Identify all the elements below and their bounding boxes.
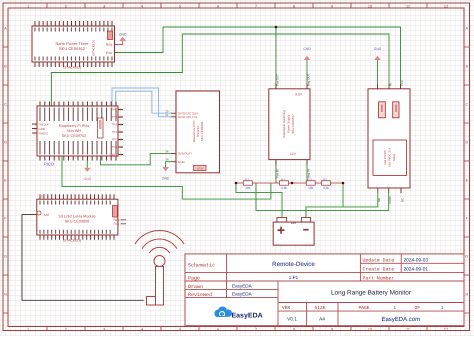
- svg-text:(STACKED): (STACKED): [63, 239, 81, 243]
- svg-text:8: 8: [293, 4, 295, 8]
- svg-text:D: D: [465, 140, 468, 144]
- svg-text:Remote-Device: Remote-Device: [272, 261, 315, 268]
- svg-text:Page: Page: [188, 275, 200, 281]
- svg-text:1RB 5VDC SL4: 1RB 5VDC SL4: [388, 147, 392, 167]
- svg-text:SX1262 LoRa Module: SX1262 LoRa Module: [58, 215, 95, 219]
- svg-text:V0.1: V0.1: [287, 317, 297, 323]
- svg-text:C: C: [465, 102, 468, 106]
- svg-text:Pos: Pos: [106, 51, 112, 55]
- svg-text:EasyEDA.com: EasyEDA.com: [381, 316, 420, 323]
- svg-text:Schematic: Schematic: [188, 263, 215, 269]
- svg-text:SIZE: SIZE: [314, 305, 325, 311]
- svg-text:10: 10: [368, 327, 372, 331]
- svg-text:36: 36: [165, 149, 169, 153]
- svg-text:OF: OF: [415, 305, 421, 311]
- svg-text:7: 7: [255, 327, 257, 331]
- svg-text:U3: U3: [40, 195, 45, 199]
- svg-text:Long Range Battery Monitor: Long Range Battery Monitor: [331, 290, 412, 297]
- svg-text:GP21 I2C TCL: GP21 I2C TCL: [178, 115, 198, 119]
- svg-text:3.3k: 3.3k: [323, 186, 329, 190]
- svg-text:Neg OUT: Neg OUT: [306, 74, 310, 86]
- svg-text:R?: R?: [281, 178, 285, 182]
- svg-text:2: 2: [65, 4, 67, 8]
- svg-text:TP5: TP5: [112, 138, 118, 142]
- svg-text:EasyEDA: EasyEDA: [232, 313, 263, 320]
- svg-text:11: 11: [406, 4, 410, 8]
- svg-text:7: 7: [255, 4, 257, 8]
- svg-text:3: 3: [103, 327, 105, 331]
- svg-text:SKU CE09702: SKU CE09702: [62, 134, 87, 138]
- svg-text:SWCLK: SWCLK: [39, 122, 49, 126]
- svg-text:10A 30VDC: 10A 30VDC: [383, 150, 387, 165]
- svg-text:PAGE: PAGE: [358, 305, 369, 311]
- svg-text:Pos IN: Pos IN: [275, 169, 279, 178]
- svg-text:GND: GND: [178, 160, 186, 164]
- svg-text:(STACKED): (STACKED): [63, 66, 81, 70]
- svg-text:EasyEDA: EasyEDA: [232, 284, 253, 289]
- svg-text:3V5(OUT): 3V5(OUT): [178, 152, 192, 156]
- svg-text:G: G: [4, 254, 7, 258]
- svg-text:Neg IN: Neg IN: [306, 169, 310, 178]
- svg-text:21: 21: [165, 113, 169, 117]
- svg-text:SKU CE06517: SKU CE06517: [291, 114, 295, 134]
- svg-text:TP1: TP1: [112, 108, 118, 112]
- svg-text:3: 3: [103, 4, 105, 8]
- svg-text:(STACKED): (STACKED): [92, 40, 96, 56]
- svg-text:H: H: [465, 292, 468, 296]
- svg-text:12V: 12V: [291, 221, 296, 225]
- svg-text:SKU CE06462: SKU CE06462: [59, 46, 86, 51]
- svg-text:SKU CE09808: SKU CE09808: [65, 220, 90, 224]
- svg-text:11: 11: [406, 327, 410, 331]
- svg-text:3.3V: 3.3V: [295, 92, 303, 96]
- svg-text:Power Supply: Power Supply: [287, 114, 291, 133]
- svg-text:GND: GND: [374, 47, 382, 51]
- svg-text:12: 12: [444, 327, 448, 331]
- svg-text:Part Number: Part Number: [363, 275, 395, 281]
- svg-text:GND: GND: [303, 47, 311, 51]
- svg-text:9: 9: [331, 4, 333, 8]
- svg-text:R?: R?: [323, 178, 327, 182]
- svg-text:3.3k: 3.3k: [281, 186, 287, 190]
- svg-text:38: 38: [165, 158, 169, 162]
- svg-text:5: 5: [179, 4, 181, 8]
- svg-text:1: 1: [27, 4, 29, 8]
- svg-text:10k: 10k: [245, 186, 251, 190]
- svg-text:Create Date: Create Date: [363, 267, 395, 273]
- svg-text:GND: GND: [119, 33, 127, 37]
- svg-text:H: H: [4, 292, 7, 296]
- svg-text:9: 9: [331, 327, 333, 331]
- svg-text:R?: R?: [245, 178, 249, 182]
- svg-text:VCC: VCC: [400, 80, 404, 86]
- svg-text:1: 1: [393, 305, 396, 311]
- svg-text:1:P1: 1:P1: [289, 275, 299, 280]
- svg-text:Pos OUT: Pos OUT: [275, 74, 279, 86]
- svg-text:TP2: TP2: [112, 115, 118, 119]
- svg-text:VER: VER: [282, 305, 291, 311]
- svg-text:10: 10: [368, 4, 372, 8]
- svg-text:TP6: TP6: [112, 145, 118, 149]
- svg-text:G: G: [465, 254, 468, 258]
- svg-text:2: 2: [65, 327, 67, 331]
- svg-text:4: 4: [141, 327, 143, 331]
- svg-text:TP3: TP3: [112, 123, 118, 127]
- svg-text:C: C: [4, 102, 7, 106]
- svg-text:Adjustable Switching: Adjustable Switching: [282, 110, 286, 138]
- svg-text:Neg: Neg: [106, 43, 112, 47]
- svg-text:SKU CE09508: SKU CE09508: [200, 121, 204, 141]
- svg-text:ANT: ANT: [44, 213, 50, 217]
- svg-text:2024-09-03: 2024-09-03: [404, 257, 429, 263]
- svg-text:USB: USB: [197, 167, 203, 171]
- svg-text:10k: 10k: [308, 186, 314, 190]
- svg-text:6: 6: [217, 4, 219, 8]
- svg-text:Reviewed: Reviewed: [188, 292, 212, 298]
- svg-text:IN: IN: [388, 83, 392, 86]
- svg-text:GND: GND: [162, 177, 170, 181]
- svg-text:Non WH: Non WH: [67, 129, 82, 133]
- svg-text:PICO: PICO: [44, 162, 55, 167]
- svg-text:GND: GND: [39, 127, 45, 131]
- svg-text:Relay: Relay: [392, 153, 396, 161]
- svg-text:8: 8: [293, 327, 295, 331]
- svg-text:SWDIO: SWDIO: [39, 131, 50, 135]
- svg-text:D: D: [4, 140, 7, 144]
- svg-text:Raspberry Pi Pico: Raspberry Pi Pico: [59, 124, 89, 128]
- svg-text:Pos: Pos: [114, 222, 120, 226]
- svg-text:COM: COM: [388, 196, 392, 204]
- svg-text:5: 5: [179, 327, 181, 331]
- svg-text:12: 12: [444, 4, 448, 8]
- svg-text:EasyEDA: EasyEDA: [232, 292, 253, 297]
- svg-text:Update Date: Update Date: [363, 258, 395, 264]
- svg-text:GND: GND: [84, 177, 92, 181]
- svg-text:Drawn: Drawn: [188, 284, 203, 290]
- svg-text:2024-09-01: 2024-09-01: [404, 267, 429, 273]
- svg-text:VBUS: VBUS: [109, 153, 117, 157]
- svg-text:4: 4: [141, 4, 143, 8]
- svg-text:6: 6: [217, 327, 219, 331]
- svg-text:A4: A4: [319, 317, 325, 323]
- svg-text:TP4: TP4: [112, 130, 118, 134]
- svg-text:12V: 12V: [290, 152, 297, 156]
- svg-text:1: 1: [27, 327, 29, 331]
- svg-text:NO: NO: [377, 197, 381, 202]
- svg-text:1: 1: [441, 305, 444, 311]
